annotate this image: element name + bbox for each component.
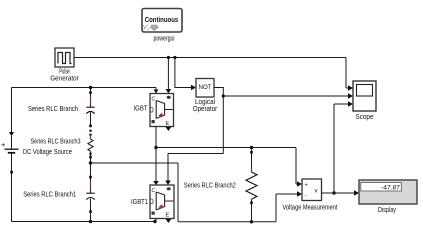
- wire to Scope input 3: [334, 104, 349, 193]
- Pulse Generator block: [55, 48, 74, 67]
- wire top bus H2: [12, 88, 157, 91]
- wire pulse output H1: [74, 58, 349, 89]
- svg-text:Voltage Measurement: Voltage Measurement: [283, 205, 338, 212]
- wire to Scope input 2: [223, 95, 349, 97]
- wire gate drop to IGBT: [167, 58, 169, 91]
- arrow into IGBT C: [154, 90, 159, 94]
- svg-text:NOT: NOT: [199, 84, 212, 91]
- wire VM output to Display: [322, 192, 355, 194]
- arrow into IGBT1 g: [165, 181, 171, 186]
- svg-text:E: E: [166, 121, 170, 127]
- svg-text:Generator: Generator: [50, 76, 79, 83]
- node junction branch2 bottom: [250, 220, 253, 223]
- wire DC source left column: [11, 88, 13, 222]
- Series RLC Branch2 resistor column: [246, 148, 257, 222]
- wire bottom ground bus: [12, 221, 156, 223]
- svg-text:-47.87: -47.87: [381, 185, 400, 192]
- svg-text:Display: Display: [378, 207, 396, 214]
- svg-text:Continuous: Continuous: [145, 17, 179, 24]
- svg-text:Series RLC Branch: Series RLC Branch: [28, 106, 78, 113]
- svg-text:+: +: [1, 140, 6, 149]
- svg-text:IGBT1: IGBT1: [131, 199, 148, 206]
- svg-text:C: C: [152, 97, 156, 103]
- node junction IGBT1 E / bus: [153, 220, 156, 223]
- svg-text:E: E: [166, 213, 170, 219]
- wire gate of IGBT1: [168, 154, 223, 182]
- wire IGBT1 E to ground bus: [155, 219, 156, 222]
- svg-text:Series RLC Branch2: Series RLC Branch2: [184, 182, 236, 189]
- DC Voltage Source battery: [1, 132, 19, 174]
- svg-text:Pulse: Pulse: [59, 69, 70, 76]
- label Pulse Generator: [50, 69, 79, 83]
- svg-text:Series RLC Branch3: Series RLC Branch3: [31, 138, 81, 145]
- node junction branch1 / bus: [89, 220, 92, 223]
- wire midpoint to load bottom: [91, 163, 298, 222]
- IGBT block: [150, 94, 174, 128]
- svg-text:DC Voltage Source: DC Voltage Source: [23, 149, 72, 156]
- powergui block U_powergui: [142, 9, 182, 33]
- wire H4 switch node to VM plus: [156, 148, 298, 185]
- node junction switch node: [154, 146, 157, 149]
- svg-text:powergui: powergui: [154, 36, 175, 43]
- arrow into Scope input 2: [348, 93, 353, 99]
- wire to NOT input: [175, 58, 192, 88]
- Voltage Measurement block: [302, 179, 322, 201]
- Series RLC Branch capacitor column: [86, 88, 94, 128]
- label Logical Operator: [193, 99, 218, 113]
- arrow into Voltage Measurement plus: [297, 181, 302, 187]
- svg-text:Operator: Operator: [193, 106, 218, 113]
- svg-text:Logical: Logical: [195, 99, 215, 106]
- svg-text:IGBT: IGBT: [134, 105, 149, 112]
- svg-text:Scope: Scope: [356, 114, 374, 121]
- node junction on H1 for NOT feed: [173, 56, 176, 59]
- arrow into IGBT g: [166, 89, 172, 94]
- arrow into Voltage Measurement minus: [297, 191, 302, 197]
- Series RLC Branch3 inductor column: [88, 130, 93, 163]
- wire IGBT E to IGBT1 C: [155, 127, 157, 186]
- node junction VM output to scope: [332, 191, 335, 194]
- unconnected m port arrow of IGBT1: [166, 219, 172, 223]
- node junction branch2 top: [250, 146, 253, 149]
- NOT Logical Operator block: [196, 79, 214, 98]
- svg-text:C: C: [152, 188, 156, 194]
- node junction top bus / RLC branch: [89, 86, 92, 89]
- arrow into Scope input 3: [348, 101, 353, 107]
- Series RLC Branch1 capacitor column: [86, 163, 94, 222]
- arrow into NOT: [191, 85, 196, 91]
- svg-text:-: -: [305, 193, 307, 199]
- Scope block: [353, 81, 376, 111]
- unconnected m port arrow of IGBT: [166, 127, 172, 131]
- wire NOT output down: [214, 88, 223, 154]
- IGBT1 block: [150, 185, 174, 219]
- node junction on H1 for IGBT gate: [167, 56, 170, 59]
- Display block: [359, 180, 417, 204]
- svg-text:v: v: [315, 189, 318, 195]
- node junction NOT output to scope: [222, 94, 225, 97]
- arrow into IGBT1 C: [153, 181, 159, 185]
- arrow into Display: [354, 190, 359, 196]
- svg-text:Series RLC Branch1: Series RLC Branch1: [23, 191, 76, 198]
- node junction midpoint: [89, 161, 92, 164]
- svg-text:+: +: [305, 183, 308, 189]
- arrow into Scope input 1: [348, 85, 353, 91]
